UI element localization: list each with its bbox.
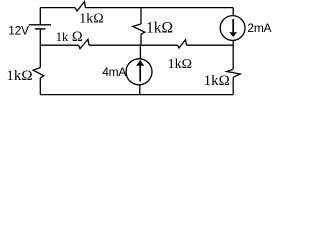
- svg-text:1kΩ: 1kΩ: [6, 68, 32, 84]
- svg-text:1kΩ: 1kΩ: [204, 73, 230, 89]
- svg-text:1k Ω: 1k Ω: [56, 29, 83, 45]
- svg-text:1kΩ: 1kΩ: [168, 57, 192, 72]
- svg-text:12V: 12V: [8, 24, 29, 38]
- svg-text:1kΩ: 1kΩ: [79, 12, 103, 27]
- svg-text:2mA: 2mA: [247, 21, 271, 35]
- svg-text:1kΩ: 1kΩ: [146, 19, 173, 36]
- svg-text:4mA: 4mA: [102, 65, 126, 79]
